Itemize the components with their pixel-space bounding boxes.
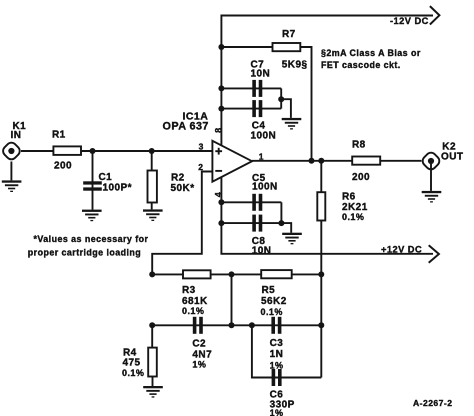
wire C8 row: [221, 222, 281, 224]
ground at C4: [282, 118, 302, 130]
svg-text:1N: 1N: [270, 349, 284, 360]
capacitor C8 10N: [252, 215, 272, 257]
capacitor C2 4N7: [192, 317, 212, 370]
op-amp IC1A OPA 637: [163, 110, 253, 181]
capacitor C6 330P: [270, 369, 295, 416]
wire C1 branch: [92, 151, 94, 210]
resistor R7 5K9: [273, 29, 308, 71]
svg-text:R8: R8: [352, 140, 366, 151]
wire mid link: [231, 274, 233, 325]
svg-text:100N: 100N: [252, 181, 278, 192]
ground at C8: [282, 233, 302, 245]
svg-text:proper cartridge loading: proper cartridge loading: [28, 247, 141, 257]
svg-text:56K2: 56K2: [261, 296, 287, 307]
node junction C5C8 ground tap: [278, 220, 284, 226]
arrow +12V DC: [381, 245, 439, 263]
wire R7 loop to output: [221, 47, 311, 161]
note class A bias: [321, 48, 421, 70]
node junction C5: [218, 199, 224, 205]
wire C5-C8 right link: [280, 202, 282, 223]
node junction left rail C2: [149, 322, 155, 328]
svg-text:R2: R2: [171, 172, 185, 183]
wire right link R5 to C6: [320, 274, 322, 377]
node junction C7: [218, 85, 224, 91]
wire ground tap upper: [281, 99, 291, 118]
svg-text:R5: R5: [262, 285, 276, 296]
svg-text:1%: 1%: [270, 360, 284, 370]
ground at C1: [82, 210, 102, 222]
capacitor C7 10N: [251, 59, 271, 97]
svg-text:50K*: 50K*: [171, 183, 195, 194]
svg-text:0.1%: 0.1%: [182, 306, 204, 316]
svg-text:1%: 1%: [192, 359, 206, 369]
node junction C6 branch: [249, 322, 255, 328]
wire pin 2 feedback to left rail: [152, 172, 212, 275]
node junction C4: [218, 106, 224, 112]
svg-text:OUT: OUT: [441, 152, 463, 163]
node junction C3 right: [318, 322, 324, 328]
resistor R6 2K21: [317, 192, 367, 222]
svg-text:IN: IN: [11, 130, 22, 141]
node junction C7C4 ground tap: [278, 96, 284, 102]
wire R2 branch: [151, 151, 153, 209]
node junction mid link C2C3: [229, 322, 235, 328]
svg-text:R7: R7: [282, 29, 296, 40]
svg-text:R3: R3: [182, 285, 196, 296]
wire R4 branch: [151, 325, 153, 386]
node junction R2: [149, 148, 155, 154]
wire pin 8 to -12V rail: [221, 16, 433, 146]
wire R6 branch: [320, 161, 322, 275]
resistor R4 475: [122, 348, 157, 378]
wire C5 row: [221, 201, 281, 203]
svg-text:5K9§: 5K9§: [282, 60, 308, 71]
ground at K2: [422, 164, 442, 203]
wire C7-C4 right link: [280, 88, 282, 108]
svg-text:FET cascode ckt.: FET cascode ckt.: [321, 60, 401, 70]
svg-text:100P*: 100P*: [103, 183, 133, 194]
connector K2: [421, 142, 464, 172]
node junction C8: [218, 220, 224, 226]
wire C2 C3 rail: [152, 324, 321, 326]
connector K1: [1, 121, 26, 161]
svg-text:C1: C1: [99, 172, 113, 183]
svg-text:0.1%: 0.1%: [261, 307, 283, 317]
svg-text:A-2267-2: A-2267-2: [413, 398, 452, 408]
svg-text:3: 3: [199, 141, 204, 151]
ground at R2: [143, 209, 163, 221]
svg-text:*Values as necessary for: *Values as necessary for: [34, 234, 149, 244]
node junction R5-R6: [318, 271, 324, 277]
resistor R1 200: [52, 129, 81, 171]
svg-text:-12V DC: -12V DC: [390, 16, 429, 26]
svg-text:10N: 10N: [251, 68, 271, 79]
wire pin 4 to +12V rail: [221, 177, 433, 254]
wire C6 loop: [252, 325, 321, 377]
wire C7 row: [221, 87, 281, 89]
svg-text:C2: C2: [192, 338, 206, 349]
resistor R3 681K: [182, 270, 211, 316]
ground at K1: [2, 162, 22, 193]
capacitor C4 100N: [251, 100, 277, 141]
svg-text:10N: 10N: [252, 246, 272, 257]
svg-text:0.1%: 0.1%: [342, 212, 364, 222]
node junction left rail R3: [149, 271, 155, 277]
svg-text:OPA 637: OPA 637: [163, 121, 209, 133]
resistor R2 50K: [148, 171, 195, 203]
note cartridge loading: [28, 234, 149, 257]
arrow -12V DC: [390, 6, 439, 26]
node junction R6 output: [318, 158, 324, 164]
svg-text:200: 200: [352, 172, 370, 183]
svg-text:1%: 1%: [270, 408, 284, 416]
wire R3 R5 rail: [152, 273, 321, 275]
wire C4 row: [221, 108, 281, 110]
node junction R3-R5: [229, 271, 235, 277]
node junction R7 on pin8 rail: [218, 44, 224, 50]
wire input row K1 to op-amp +input: [21, 150, 212, 152]
svg-text:200: 200: [54, 160, 72, 171]
node junction C1: [90, 148, 96, 154]
capacitor C3 1N: [270, 317, 284, 371]
capacitor C1 100P: [83, 172, 132, 194]
resistor R5 56K2: [261, 270, 292, 317]
svg-text:100N: 100N: [251, 130, 277, 141]
wire ground tap lower: [281, 223, 291, 233]
node junction R7 output: [309, 158, 315, 164]
wire output row: [252, 160, 422, 162]
svg-text:§2mA Class A Bias or: §2mA Class A Bias or: [321, 48, 421, 58]
ground at R4: [143, 386, 163, 398]
svg-text:R1: R1: [52, 129, 66, 140]
svg-text:+12V DC: +12V DC: [381, 245, 422, 255]
resistor R8 200: [352, 140, 380, 183]
svg-text:0.1%: 0.1%: [122, 368, 144, 378]
capacitor C5 100N: [252, 173, 278, 211]
svg-text:C3: C3: [270, 338, 284, 349]
